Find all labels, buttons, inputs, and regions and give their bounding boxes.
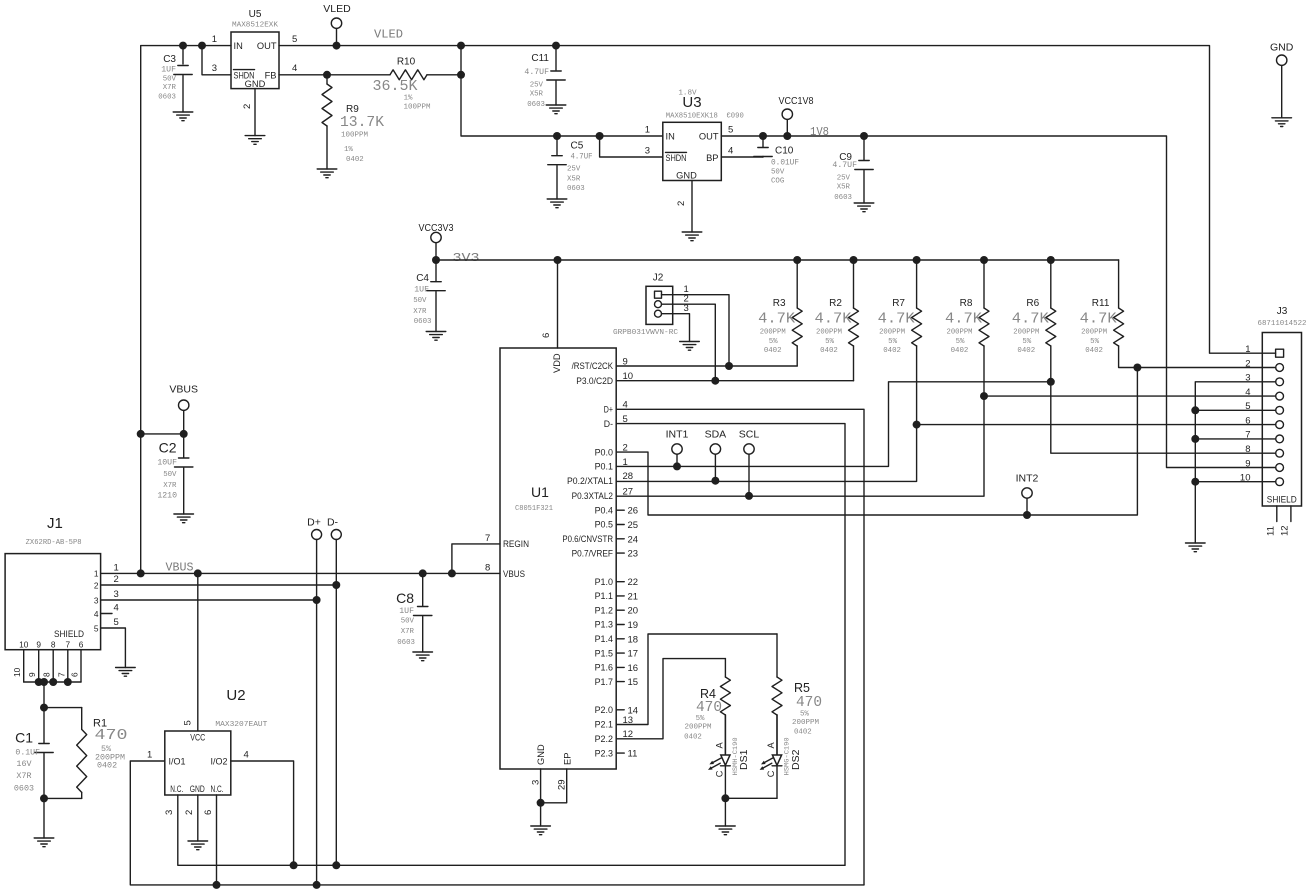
svg-text:50V: 50V <box>163 76 177 84</box>
svg-text:0.01UF: 0.01UF <box>771 159 799 168</box>
svg-text:SCL: SCL <box>739 429 760 441</box>
svg-text:D-: D- <box>327 516 339 528</box>
svg-text:A: A <box>766 742 776 749</box>
regulator U5 MAX8512EXK <box>212 9 298 109</box>
svg-text:2: 2 <box>1245 358 1250 369</box>
wire D+ from J1 pin 3 <box>101 599 317 601</box>
wire R8 bottom to P0.3XTAL2 (SCL net) <box>616 346 984 496</box>
svg-text:U1: U1 <box>531 484 549 500</box>
wire J3 pin 4 line <box>984 395 1262 397</box>
ground C1 <box>34 838 54 847</box>
junction D+ bottom <box>313 881 321 889</box>
svg-text:C8: C8 <box>396 590 414 606</box>
junction R6 top <box>1047 256 1055 264</box>
svg-text:18: 18 <box>628 634 639 645</box>
ground J3 <box>1186 543 1206 552</box>
net label 3V3 <box>453 252 480 265</box>
junction LED cathode <box>721 794 729 802</box>
svg-text:3: 3 <box>212 63 217 74</box>
wire U2 I/O1 pin 1 <box>130 761 864 885</box>
svg-text:P2.2: P2.2 <box>595 734 613 744</box>
wire VBUS rail <box>101 572 500 574</box>
svg-text:470: 470 <box>796 694 822 711</box>
svg-text:2: 2 <box>676 201 687 206</box>
svg-text:A: A <box>715 742 725 749</box>
svg-text:4.7K: 4.7K <box>878 311 915 328</box>
svg-text:VCC: VCC <box>190 733 205 743</box>
testpoint D- <box>327 516 341 585</box>
junction C1/R1 bottom <box>40 794 48 802</box>
junction SCL <box>745 492 753 500</box>
svg-text:8: 8 <box>51 640 56 650</box>
svg-text:VBUS: VBUS <box>503 569 525 579</box>
testpoint VCC3V3 <box>419 222 454 260</box>
svg-text:P0.6/CNVSTR: P0.6/CNVSTR <box>562 534 613 544</box>
svg-text:DS2: DS2 <box>790 749 802 770</box>
svg-text:P1.3: P1.3 <box>595 620 613 630</box>
svg-text:0402: 0402 <box>794 729 812 737</box>
svg-text:P2.0: P2.0 <box>595 705 613 715</box>
svg-text:MAX8510EXK18 Є090: MAX8510EXK18 Є090 <box>666 113 744 121</box>
svg-text:11: 11 <box>628 749 638 760</box>
svg-text:3: 3 <box>645 146 650 157</box>
junction C11 top <box>552 42 560 50</box>
svg-text:P0.0: P0.0 <box>595 447 613 457</box>
ground C3 <box>173 112 193 121</box>
svg-text:200PPM: 200PPM <box>947 329 973 337</box>
wire to ground U1 <box>540 803 542 826</box>
svg-text:5%: 5% <box>956 338 965 346</box>
junction U1 GND/EP <box>537 799 545 807</box>
svg-text:26: 26 <box>628 506 639 517</box>
junction D- tap <box>332 581 340 589</box>
svg-text:1UF: 1UF <box>414 286 429 295</box>
svg-text:8: 8 <box>1245 444 1250 455</box>
junction REGIN jog <box>448 569 456 577</box>
wire U3 BP <box>721 156 763 158</box>
svg-text:24: 24 <box>628 534 639 545</box>
wire P0.0 / INT2 net <box>616 368 1137 516</box>
junction R3 top <box>793 256 801 264</box>
svg-text:1: 1 <box>114 562 119 573</box>
svg-text:200PPM: 200PPM <box>792 719 819 727</box>
svg-text:3: 3 <box>94 595 99 605</box>
junction VBUS branch left <box>137 430 145 438</box>
svg-text:INT1: INT1 <box>666 429 689 441</box>
junction R9 top <box>323 71 331 79</box>
net label VBUS <box>166 562 194 575</box>
capacitor C8 <box>396 573 432 652</box>
resistor R7 4.7K <box>878 260 922 355</box>
svg-text:200PPM: 200PPM <box>1081 329 1107 337</box>
svg-text:R8: R8 <box>960 298 973 309</box>
junction U3 SHDN branch <box>596 132 604 140</box>
svg-text:U2: U2 <box>226 687 245 704</box>
wire U1 D- pin 5 <box>616 424 845 866</box>
wire J1 pin 4 stub <box>101 613 112 615</box>
svg-text:8: 8 <box>42 672 52 677</box>
svg-text:P0.2/XTAL1: P0.2/XTAL1 <box>567 476 613 486</box>
svg-text:I/O2: I/O2 <box>211 757 228 767</box>
svg-text:10UF: 10UF <box>157 459 177 468</box>
svg-text:D+: D+ <box>604 405 613 415</box>
junction shield pins <box>35 678 72 686</box>
svg-text:4: 4 <box>292 63 297 74</box>
svg-text:5%: 5% <box>1090 338 1099 346</box>
svg-text:C: C <box>766 770 776 777</box>
junction pin5 <box>1191 406 1199 414</box>
svg-text:5: 5 <box>292 34 297 45</box>
svg-text:SHIELD: SHIELD <box>1267 495 1297 505</box>
svg-text:P0.1: P0.1 <box>595 462 613 472</box>
svg-text:3: 3 <box>164 810 175 815</box>
junction VBUS branch right <box>180 430 188 438</box>
wire P0.1 / INT1 net <box>616 382 1051 467</box>
resistor R9 13.7K <box>322 75 384 169</box>
svg-text:COG: COG <box>771 178 784 186</box>
svg-text:0603: 0603 <box>527 101 545 109</box>
svg-text:8: 8 <box>485 562 490 573</box>
wire U5 FB <box>279 74 461 76</box>
svg-text:68711014522: 68711014522 <box>1258 320 1307 328</box>
svg-text:1210: 1210 <box>157 492 177 501</box>
ground J1 pin5 <box>116 668 136 677</box>
svg-text:0402: 0402 <box>764 347 782 355</box>
ground U5 <box>245 136 265 145</box>
capacitor C3 <box>158 46 192 112</box>
svg-text:C11: C11 <box>531 53 549 64</box>
svg-text:200PPM: 200PPM <box>760 329 786 337</box>
svg-text:16V: 16V <box>16 759 31 769</box>
capacitor C9 <box>832 136 873 203</box>
svg-text:25V: 25V <box>567 166 581 174</box>
svg-text:7: 7 <box>65 640 70 650</box>
svg-text:29: 29 <box>557 779 568 790</box>
svg-text:N.C.: N.C. <box>211 784 224 794</box>
svg-text:200PPM: 200PPM <box>1013 329 1039 337</box>
junction SDA <box>711 477 719 485</box>
wire U3 GND pin 2 <box>691 181 693 233</box>
svg-text:3V3: 3V3 <box>453 252 480 265</box>
svg-text:0402: 0402 <box>1017 347 1035 355</box>
ground C9 <box>854 203 874 212</box>
svg-text:C: C <box>715 770 725 777</box>
svg-text:X7R: X7R <box>163 84 177 92</box>
wire R11 bottom to J3 pin 2 <box>1119 346 1263 368</box>
svg-text:1: 1 <box>147 750 152 761</box>
wire P3.0/C2D net (U1 pin 10, J2.2, R2) <box>616 346 853 381</box>
wire J1 shield pins common <box>24 682 81 708</box>
ground C4 <box>426 332 446 341</box>
svg-text:MAX8512EXK: MAX8512EXK <box>232 22 278 30</box>
svg-text:U5: U5 <box>249 9 262 20</box>
junction R8 to J3 pin 4 <box>980 392 988 400</box>
svg-text:GND: GND <box>1270 41 1294 53</box>
resistor R10 36.5K <box>373 57 431 112</box>
resistor R2 4.7K <box>815 260 859 355</box>
svg-text:IN: IN <box>666 132 675 142</box>
svg-text:5: 5 <box>94 623 99 633</box>
svg-text:P3.0/C2D: P3.0/C2D <box>576 376 613 386</box>
capacitor C2 <box>157 434 193 514</box>
svg-text:P2.1: P2.1 <box>595 720 613 730</box>
svg-text:2: 2 <box>242 104 253 109</box>
svg-text:3: 3 <box>531 780 542 785</box>
wire U1 EP pin 29 <box>541 769 567 803</box>
regulator U3 MAX8510EXK18 <box>645 90 745 207</box>
svg-text:4.7UF: 4.7UF <box>832 161 857 170</box>
wire U1 D+ pin 4 <box>616 409 864 885</box>
svg-text:P0.5: P0.5 <box>595 520 613 530</box>
svg-text:7: 7 <box>56 672 66 677</box>
svg-text:N.C.: N.C. <box>170 784 183 794</box>
junction pin10 <box>1191 478 1199 486</box>
wire U5 SHDN <box>202 46 231 75</box>
svg-text:P0.4: P0.4 <box>595 505 613 515</box>
svg-text:0603: 0603 <box>14 784 34 794</box>
wire VBUS input to U5 IN <box>141 46 231 574</box>
svg-text:SHIELD: SHIELD <box>54 629 84 639</box>
svg-text:P1.1: P1.1 <box>595 591 613 601</box>
testpoint VBUS <box>169 384 198 434</box>
resistor R6 4.7K <box>1012 260 1056 355</box>
wire J2 pin 3 to ground <box>662 314 690 342</box>
svg-text:4.7K: 4.7K <box>758 311 795 328</box>
svg-text:X5R: X5R <box>567 176 581 184</box>
svg-text:50V: 50V <box>413 297 427 305</box>
junction R7 top <box>913 256 921 264</box>
svg-text:0603: 0603 <box>397 639 415 647</box>
junction R7 to J3 pin 6 <box>913 421 921 429</box>
svg-text:FB: FB <box>265 70 277 80</box>
svg-text:4.7K: 4.7K <box>945 311 982 328</box>
svg-text:36.5K: 36.5K <box>373 78 418 95</box>
wire J2 pin 1 to /RST <box>662 295 730 366</box>
connector J1 ZX62RD-AB-5P8 <box>5 515 119 682</box>
svg-text:28: 28 <box>623 471 634 482</box>
ground U1 <box>531 826 551 835</box>
svg-text:25V: 25V <box>530 82 544 90</box>
junction INT1 <box>673 462 681 470</box>
svg-text:100PPM: 100PPM <box>341 132 368 140</box>
resistor R3 4.7K <box>758 260 802 355</box>
wire VLED rail <box>279 46 1262 354</box>
svg-text:P1.6: P1.6 <box>595 663 613 673</box>
svg-text:9: 9 <box>36 640 41 650</box>
junction U2 pin4 bottom <box>290 861 298 869</box>
svg-text:13.7K: 13.7K <box>340 114 384 131</box>
svg-text:J1: J1 <box>47 515 63 532</box>
svg-text:4: 4 <box>728 146 733 157</box>
wire D+ drop <box>316 600 318 885</box>
svg-text:GRPB031VWVN-RC: GRPB031VWVN-RC <box>613 329 678 337</box>
testpoint SDA <box>705 429 727 481</box>
ground C8 <box>413 652 433 661</box>
svg-text:REGIN: REGIN <box>503 539 529 549</box>
junction C10 top <box>759 132 767 140</box>
resistor R8 4.7K <box>945 260 989 355</box>
ground J2 <box>680 342 700 351</box>
svg-text:R3: R3 <box>773 298 786 309</box>
wire U1 GND pin 3 <box>540 769 542 803</box>
svg-text:0402: 0402 <box>883 347 901 355</box>
svg-text:200PPM: 200PPM <box>685 724 712 732</box>
svg-text:0402: 0402 <box>1085 347 1103 355</box>
svg-text:50V: 50V <box>401 618 415 626</box>
wire U2 GND pin 2 <box>197 795 199 841</box>
svg-text:P1.2: P1.2 <box>595 605 613 615</box>
svg-text:OUT: OUT <box>257 41 277 51</box>
svg-text:1UF: 1UF <box>161 66 176 75</box>
connector J2 GRPB031VWVN-RC <box>613 273 689 337</box>
svg-text:0603: 0603 <box>567 185 585 193</box>
svg-text:VBUS: VBUS <box>169 384 198 396</box>
ground C5 <box>547 199 567 208</box>
svg-text:GND: GND <box>536 744 546 765</box>
testpoint SCL <box>739 429 760 496</box>
svg-text:0402: 0402 <box>684 734 702 742</box>
wire U1 REGIN jog <box>452 544 500 574</box>
ground C11 <box>546 105 566 114</box>
svg-text:6: 6 <box>203 810 214 815</box>
svg-text:1: 1 <box>1245 344 1250 355</box>
junction C1/R1 top <box>40 704 48 712</box>
junction J2.1 on /RST <box>725 362 733 370</box>
svg-text:5%: 5% <box>1022 338 1031 346</box>
svg-text:1: 1 <box>623 457 628 468</box>
svg-text:/RST/C2CK: /RST/C2CK <box>572 361 614 371</box>
svg-text:C3: C3 <box>163 54 176 65</box>
wire LED to ground <box>724 798 726 826</box>
svg-text:4: 4 <box>114 603 119 614</box>
svg-text:11: 11 <box>1266 526 1277 536</box>
svg-text:1: 1 <box>212 34 217 45</box>
wire J1 pin 5 to ground <box>101 628 126 668</box>
svg-text:17: 17 <box>628 649 639 660</box>
svg-text:OUT: OUT <box>699 132 719 142</box>
svg-text:0603: 0603 <box>158 94 176 102</box>
svg-text:J3: J3 <box>1277 306 1288 317</box>
LED DS2 HSMG-C190 <box>760 715 802 798</box>
svg-text:P1.5: P1.5 <box>595 648 613 658</box>
connector J3 68711014522 <box>1240 306 1307 536</box>
svg-text:23: 23 <box>628 549 639 560</box>
svg-text:3: 3 <box>114 589 119 600</box>
junction J2.2 on P3.0 <box>711 377 719 385</box>
junction R8 top <box>980 256 988 264</box>
wire J3 pin 5 to ground chain <box>1195 409 1262 411</box>
resistor R1 470 <box>44 708 128 799</box>
svg-text:2: 2 <box>94 580 99 590</box>
junction R11 / INT2 riser <box>1133 364 1141 372</box>
svg-text:U3: U3 <box>682 94 701 111</box>
ground LEDs <box>716 826 736 835</box>
svg-text:0402: 0402 <box>97 761 117 771</box>
svg-text:10: 10 <box>12 667 22 677</box>
capacitor C10 <box>754 136 799 186</box>
svg-text:21: 21 <box>628 591 639 602</box>
svg-text:16: 16 <box>628 663 639 674</box>
junction R10 right / VLED tap <box>457 42 465 79</box>
svg-text:P1.0: P1.0 <box>595 577 613 587</box>
svg-text:5%: 5% <box>800 711 809 719</box>
svg-text:5: 5 <box>114 617 119 628</box>
wire R7 bottom to P0.2/XTAL1 (SDA net) <box>616 346 916 481</box>
wire D- drop <box>335 585 337 865</box>
svg-text:X7R: X7R <box>413 308 427 316</box>
svg-text:R5: R5 <box>794 681 810 695</box>
svg-text:VCC1V8: VCC1V8 <box>779 95 814 107</box>
svg-text:1: 1 <box>94 569 99 579</box>
wire LED cathodes common <box>725 797 777 799</box>
wire U1 P2.2 to R4 <box>616 659 725 739</box>
ground U2 <box>188 841 208 850</box>
svg-text:DS1: DS1 <box>738 749 750 770</box>
wire U3 SHDN <box>600 136 663 157</box>
wire U1 VDD pin 6 <box>557 260 559 348</box>
svg-text:200PPM: 200PPM <box>879 329 905 337</box>
svg-text:1V8: 1V8 <box>810 126 829 139</box>
svg-text:GND: GND <box>245 79 266 89</box>
svg-text:X5R: X5R <box>530 91 544 99</box>
svg-text:R10: R10 <box>397 57 416 68</box>
svg-text:0402: 0402 <box>951 347 969 355</box>
svg-text:4.7UF: 4.7UF <box>571 153 593 162</box>
svg-text:VLED: VLED <box>323 3 351 15</box>
svg-text:4.7K: 4.7K <box>1080 311 1117 328</box>
wire 1V8 rail <box>721 136 1262 468</box>
ground R9 <box>317 169 337 178</box>
wire VLED to U3 IN <box>461 46 663 136</box>
resistor R5 470 <box>772 634 822 755</box>
wire J2 pin 2 to P3.0 <box>662 304 716 381</box>
junction U2 pin6 bottom <box>213 881 221 889</box>
svg-text:D-: D- <box>604 419 613 429</box>
svg-text:27: 27 <box>623 486 634 497</box>
junction pin7 <box>1191 435 1199 443</box>
junction C5 top <box>553 132 561 140</box>
svg-text:1%: 1% <box>404 95 413 103</box>
svg-text:10: 10 <box>19 640 29 650</box>
svg-text:4: 4 <box>1245 387 1250 398</box>
svg-text:5%: 5% <box>696 715 705 723</box>
svg-text:I/O1: I/O1 <box>169 757 186 767</box>
junction VBUS left vertical <box>137 569 145 577</box>
svg-text:MAX3207EAUT: MAX3207EAUT <box>215 721 267 729</box>
svg-text:0.1UF: 0.1UF <box>15 749 40 758</box>
svg-text:10: 10 <box>623 371 634 382</box>
svg-text:ZX62RD-AB-5P8: ZX62RD-AB-5P8 <box>26 539 82 547</box>
resistor R4 470 <box>684 659 730 755</box>
wire J3 pin 3 to ground chain <box>1195 382 1262 543</box>
wire J3 pin 6 line <box>917 424 1263 426</box>
svg-text:9: 9 <box>27 672 37 677</box>
ground C2 <box>174 514 194 523</box>
wire J3 pin 7 to ground chain <box>1195 438 1262 440</box>
net label VLED <box>374 29 403 42</box>
junction R2 top <box>850 256 858 264</box>
svg-text:470: 470 <box>95 727 128 744</box>
wire R6 bottom to J3 pin 8 <box>1051 346 1263 453</box>
junction D- bottom <box>332 861 340 869</box>
svg-text:C5: C5 <box>571 141 584 152</box>
svg-text:20: 20 <box>628 606 639 617</box>
svg-text:4.7K: 4.7K <box>815 311 852 328</box>
wire U2 VCC pin 5 <box>197 573 199 730</box>
svg-text:2: 2 <box>623 443 628 454</box>
svg-text:50V: 50V <box>163 471 177 479</box>
svg-text:SDA: SDA <box>705 429 727 441</box>
